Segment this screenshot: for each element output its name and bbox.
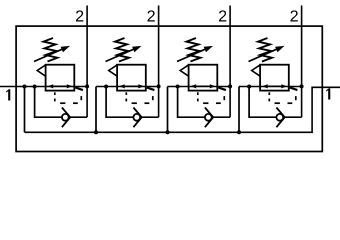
supply line 1 segment unit3 — [168, 86, 231, 88]
supply line 1 segment unit1 — [0, 86, 87, 88]
port label 1 right — [326, 88, 330, 99]
junction dot supply unit1 — [23, 85, 27, 89]
port label 1 left — [6, 89, 10, 100]
bus junction dot unit4 — [237, 130, 241, 134]
bus junction dot unit3 — [166, 130, 170, 134]
port label 2 unit1 — [76, 10, 83, 21]
enclosure box — [16, 26, 322, 151]
port label 2 unit2 — [148, 10, 155, 21]
regulator unit 4 — [239, 6, 304, 133]
supply line 1 segment unit2 — [96, 86, 159, 88]
supply bus bottom — [25, 87, 340, 132]
supply line 1 segment unit4 — [239, 86, 302, 88]
regulator unit 3 — [168, 6, 233, 133]
regulator unit 1 — [25, 6, 90, 133]
regulator unit 2 — [96, 6, 161, 133]
port label 2 unit3 — [219, 10, 226, 21]
port label 2 unit4 — [291, 10, 298, 21]
bus junction dot unit2 — [94, 130, 98, 134]
